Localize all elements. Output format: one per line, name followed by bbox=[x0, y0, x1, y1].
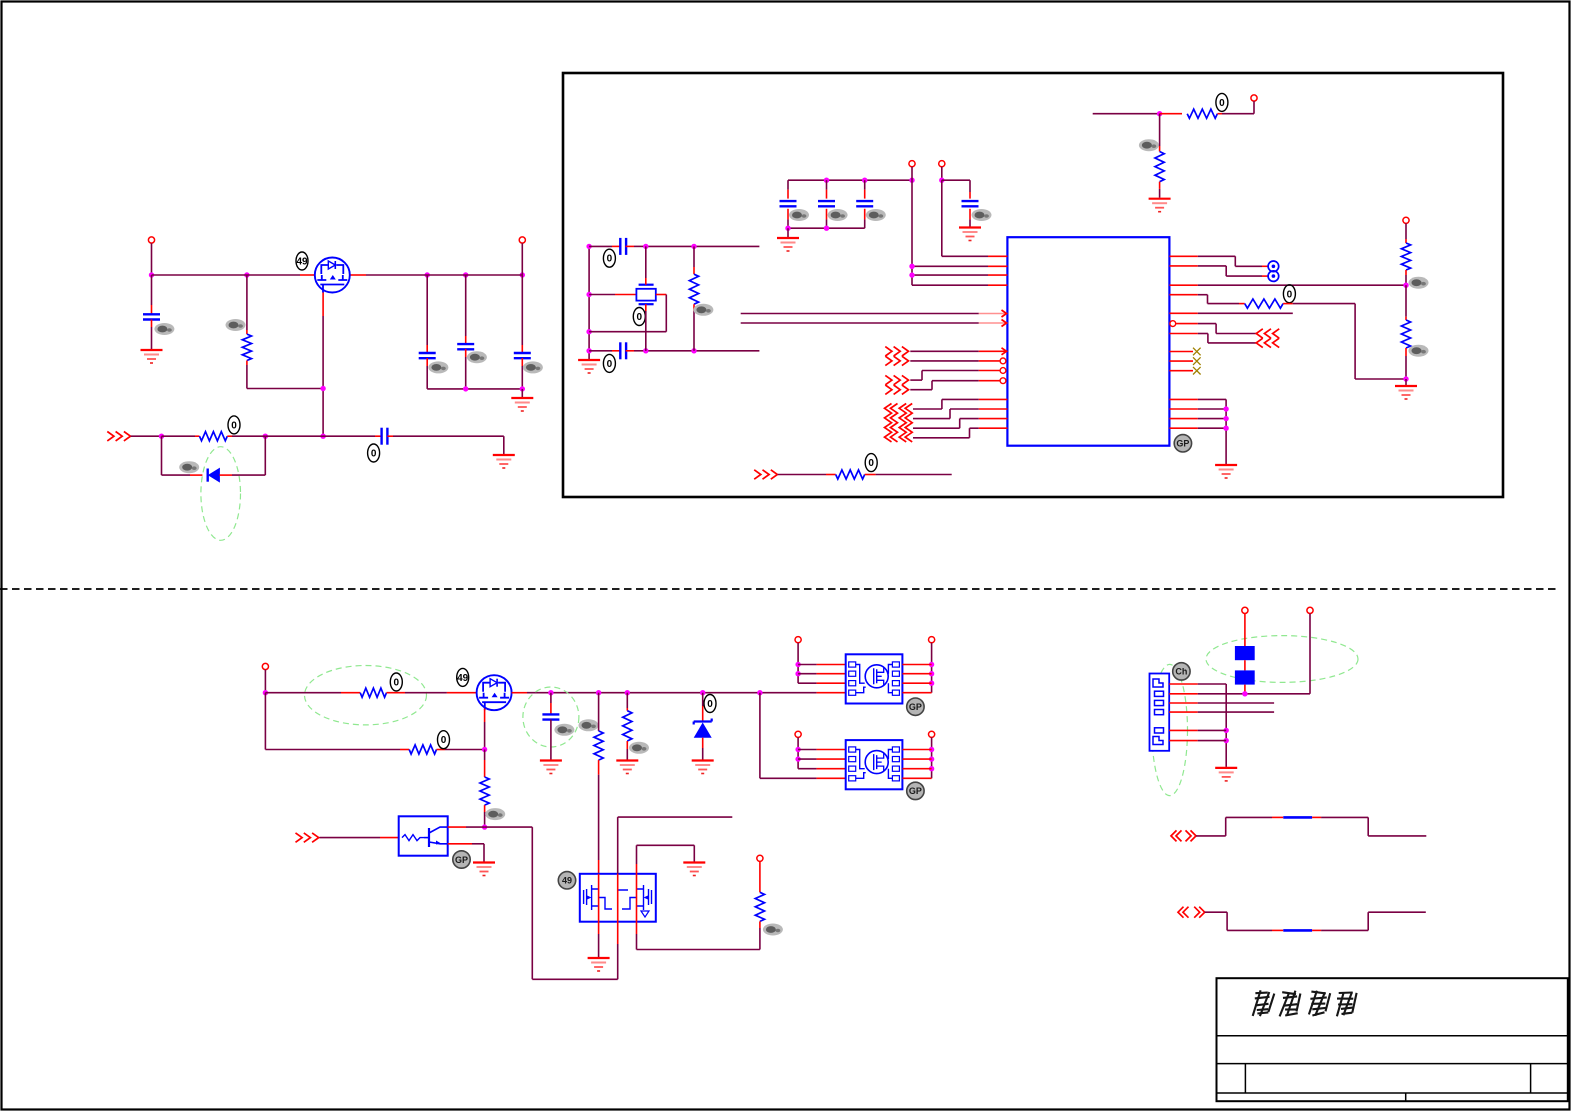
svg-text:49: 49 bbox=[457, 673, 469, 684]
no-connect pins U1 bbox=[1169, 348, 1200, 375]
value label C1 bbox=[154, 323, 174, 335]
wire U1 pin row L5 bbox=[741, 310, 1008, 317]
wire K2 right bus bbox=[929, 737, 934, 778]
ground below R14 bbox=[616, 761, 638, 774]
IC U1 bbox=[1007, 237, 1169, 446]
power terminal P6 bbox=[1251, 95, 1257, 114]
label GP U1 bbox=[1174, 435, 1191, 452]
power terminal P11 bbox=[795, 731, 801, 737]
wire K1 in1 bbox=[798, 664, 846, 666]
off-page input arrows IN2 bbox=[754, 470, 777, 479]
wire P1 to input rail bbox=[151, 243, 153, 275]
designator oval Q1 bbox=[296, 252, 308, 270]
designator oval C5 bbox=[368, 444, 380, 462]
wire K1 out4 bbox=[902, 692, 931, 694]
label Ch J1 bbox=[1173, 663, 1190, 680]
power terminal P13 bbox=[1242, 607, 1248, 613]
designator oval R11 bbox=[438, 731, 450, 749]
node IN1 bbox=[159, 434, 268, 439]
value label R3 bbox=[693, 304, 713, 316]
capacitor C7 bbox=[589, 342, 646, 359]
selection ellipse around D1 bbox=[201, 447, 241, 541]
designator oval R10 bbox=[390, 673, 402, 691]
value label R12 bbox=[485, 808, 505, 820]
svg-text:0: 0 bbox=[441, 735, 447, 746]
ground decap rail bbox=[777, 228, 799, 251]
label GP U2 bbox=[453, 851, 470, 868]
designator oval D2 bbox=[704, 695, 716, 713]
wire P3 down bbox=[911, 167, 913, 180]
off-page port A bbox=[1171, 830, 1196, 841]
ground osc rail bbox=[578, 360, 600, 373]
designator oval R6 bbox=[1283, 285, 1295, 303]
resistor R1 bbox=[242, 275, 251, 389]
wire input rail left bbox=[152, 274, 315, 276]
capacitor C1 bbox=[143, 275, 160, 349]
optocoupler U2 bbox=[399, 816, 448, 855]
power terminal P3 bbox=[909, 161, 915, 167]
off-page port B bbox=[1178, 907, 1205, 918]
wire K2 out2 bbox=[902, 758, 931, 760]
label GP K1 bbox=[907, 698, 924, 715]
resistor R11 bbox=[400, 745, 485, 754]
node divider bottom bbox=[1403, 376, 1408, 381]
designator oval R9 bbox=[865, 454, 877, 472]
resistor R15 bbox=[755, 861, 764, 949]
wire osc top out bbox=[646, 245, 760, 247]
capacitor C11 bbox=[942, 180, 979, 226]
value label R13 bbox=[579, 719, 599, 731]
capacitor C3 bbox=[457, 275, 474, 389]
value label C2 bbox=[428, 361, 448, 373]
svg-text:0: 0 bbox=[231, 420, 237, 431]
wire C5 to ground bbox=[387, 436, 503, 454]
wire Q2 to loads bbox=[512, 692, 846, 694]
wire D1 loop left bbox=[162, 436, 203, 475]
wire K1 left bus bbox=[795, 643, 800, 683]
value label R5 bbox=[1139, 139, 1159, 151]
wire U1 pin row R5 bbox=[1169, 312, 1292, 314]
wire net to R4 bbox=[1093, 111, 1163, 116]
wire crystal bottom pin bbox=[645, 304, 647, 351]
power terminal P1 bbox=[148, 237, 154, 243]
wire net A right bbox=[1312, 817, 1426, 836]
resistor R14 bbox=[623, 693, 632, 760]
designator oval Y1 bbox=[633, 308, 645, 326]
transistor Q2 PMOS bbox=[477, 675, 512, 710]
svg-text:49: 49 bbox=[296, 257, 308, 268]
value label C9 bbox=[828, 209, 848, 221]
wire U1 pin row R6 bbox=[1170, 321, 1256, 334]
wire U2 emitter bbox=[448, 844, 484, 862]
ground below C11 bbox=[959, 228, 981, 241]
wire U3 source1 gnd bbox=[588, 922, 610, 971]
power terminal P12 bbox=[929, 731, 935, 737]
svg-text:Ch: Ch bbox=[1175, 667, 1187, 677]
wire U1 pin row R3 bbox=[1169, 284, 1406, 286]
selection ellipse fuses bbox=[1206, 636, 1358, 683]
wire crystal left bbox=[589, 294, 636, 296]
capacitor C4 bbox=[514, 275, 531, 389]
power terminal P2 bbox=[519, 237, 525, 243]
wire U3 drain2 top bbox=[637, 845, 760, 949]
relay K2 bbox=[846, 740, 903, 789]
transistor Q1 PMOS bbox=[315, 258, 350, 293]
wire K1 out3 bbox=[902, 682, 931, 684]
ground below C12 bbox=[540, 761, 562, 774]
wire U1 pin row R11 bbox=[1169, 399, 1226, 464]
node J1 gnd bus bbox=[1224, 728, 1229, 744]
wire vcc rail bbox=[788, 179, 912, 181]
svg-text:0: 0 bbox=[371, 449, 377, 460]
ground J1 bbox=[1215, 768, 1237, 781]
ferrite bead FB2 bbox=[1283, 929, 1312, 932]
power terminal P10 bbox=[929, 637, 935, 643]
wire U3 source1 red bbox=[598, 874, 600, 922]
wire gate node to U3 bbox=[485, 827, 618, 979]
power terminal P4 bbox=[939, 161, 945, 167]
value label R15 bbox=[763, 924, 783, 936]
wire crystal top pin bbox=[645, 246, 647, 284]
designator oval R4 bbox=[1216, 93, 1228, 111]
wire P7 down bbox=[263, 670, 268, 696]
wire output caps rail bbox=[427, 388, 522, 390]
ground divider bbox=[1395, 379, 1417, 399]
node output caps rail bbox=[463, 386, 525, 391]
svg-text:0: 0 bbox=[394, 678, 400, 689]
capacitor C5 bbox=[382, 428, 388, 445]
capacitor C9 bbox=[818, 180, 835, 228]
wire P2 down bbox=[521, 243, 523, 275]
off-page arrows G2 bbox=[885, 375, 908, 394]
logo Wistron calligraphy bbox=[1253, 990, 1357, 1016]
resistor R10 bbox=[265, 688, 476, 697]
wire J1 pin1 bbox=[1169, 684, 1226, 767]
wire U1 pin row R13 bbox=[1169, 416, 1228, 421]
test point TP2 bbox=[1268, 271, 1279, 282]
ground below caps rail bbox=[511, 389, 533, 411]
node vcc rail bbox=[824, 178, 915, 183]
wire gate feedback bbox=[265, 693, 400, 750]
wire IN1 to R2 bbox=[131, 435, 162, 437]
capacitor C2 bbox=[419, 275, 436, 389]
wire U1 pin row L7 bbox=[910, 348, 1007, 355]
relay K1 bbox=[846, 654, 903, 703]
wire decap gnd rail bbox=[788, 227, 865, 229]
wire K1 out1 bbox=[902, 664, 931, 666]
value label R7 bbox=[1409, 277, 1429, 289]
connector J1 bbox=[1150, 674, 1170, 751]
wire J1 pin4 bbox=[1169, 711, 1274, 713]
node input rail bbox=[149, 272, 525, 277]
resistor R2 bbox=[162, 432, 266, 441]
wire U2 collector bbox=[448, 826, 485, 828]
wire U1 pin row L9 bbox=[922, 368, 1006, 381]
wire P4 down bbox=[939, 167, 944, 183]
off-page arrows right bbox=[1256, 329, 1279, 348]
wire J1 pin6 bbox=[1169, 740, 1226, 742]
node decap gnd rail bbox=[785, 226, 829, 231]
wire node to C5 bbox=[265, 435, 381, 437]
wire U1 pin row L1 bbox=[942, 180, 1008, 256]
bus entry chevrons left bbox=[885, 404, 913, 442]
wire U1 pin row R12 bbox=[1169, 406, 1228, 411]
ground right of C5 bbox=[493, 455, 515, 468]
selection ellipse connector bbox=[1152, 664, 1188, 795]
wire U1 pin row L4 bbox=[912, 284, 1007, 286]
wire R1 bottom rail bbox=[247, 388, 323, 390]
wire U1 pin row R4 bbox=[1169, 295, 1244, 304]
wire load to K2 bbox=[760, 693, 846, 779]
designator oval C6 bbox=[603, 249, 615, 267]
power terminal P14 bbox=[1307, 607, 1313, 613]
svg-text:GP: GP bbox=[1176, 439, 1189, 449]
schematic block frame bbox=[563, 73, 1503, 497]
wire K2 in2 bbox=[798, 758, 846, 760]
ferrite bead FB1 bbox=[1283, 816, 1312, 819]
wire K1 out2 bbox=[902, 673, 931, 675]
wire Q2 gate bbox=[482, 709, 487, 753]
value label R14 bbox=[629, 742, 649, 754]
resistor R13 bbox=[594, 693, 603, 874]
node osc bottom bbox=[643, 348, 697, 353]
ground below D2 bbox=[692, 761, 714, 774]
zener diode D2 bbox=[694, 693, 712, 760]
wire U1 pin row L2 bbox=[909, 180, 1007, 285]
value label D1 bbox=[179, 461, 199, 473]
capacitor C8 bbox=[780, 180, 797, 228]
wire U3 gate2 top bbox=[618, 817, 733, 979]
wire net B bbox=[1205, 912, 1284, 930]
value label C3 bbox=[467, 351, 487, 363]
value label C11 bbox=[972, 209, 992, 221]
dual MOSFET U3 bbox=[580, 874, 656, 922]
designator oval R2 bbox=[228, 416, 240, 434]
node divider mid bbox=[1403, 283, 1408, 288]
designator oval Q2 bbox=[457, 668, 469, 686]
capacitor C10 bbox=[856, 180, 873, 228]
wire Q1 to output rail bbox=[350, 274, 522, 276]
fuse F1 bbox=[1235, 614, 1255, 661]
svg-text:0: 0 bbox=[1287, 289, 1293, 300]
resistor R5 bbox=[1155, 114, 1164, 198]
svg-text:0: 0 bbox=[1219, 98, 1225, 109]
value label C12 bbox=[554, 724, 574, 736]
crystal Y1 bbox=[636, 285, 655, 305]
svg-text:0: 0 bbox=[607, 359, 613, 370]
svg-text:GP: GP bbox=[909, 786, 922, 796]
wire net B right bbox=[1312, 912, 1426, 930]
svg-text:0: 0 bbox=[637, 312, 643, 323]
wire J1 pin3 bbox=[1169, 702, 1274, 704]
wire U1 pin row L8 bbox=[910, 358, 1006, 364]
wire osc bottom out bbox=[646, 350, 760, 352]
resistor R3 bbox=[689, 246, 698, 350]
resistor R6 bbox=[1245, 299, 1293, 308]
capacitor C12 bbox=[542, 693, 559, 760]
power terminal P8 bbox=[757, 855, 763, 861]
wire D1 loop right bbox=[219, 436, 265, 475]
wire U1 pin row R1 bbox=[1169, 256, 1267, 266]
wire Q1 gate down bbox=[322, 293, 324, 437]
label GP K2 bbox=[907, 782, 924, 799]
value label C8 bbox=[789, 209, 809, 221]
wire U1 pin row L12 bbox=[913, 419, 1007, 429]
power terminal P5 bbox=[1403, 217, 1409, 223]
value label C10 bbox=[866, 209, 886, 221]
node load rail bbox=[548, 690, 762, 695]
wire IN3 to U2 bbox=[320, 837, 399, 839]
label 49 U3 bbox=[558, 872, 575, 889]
resistor R8 bbox=[1401, 285, 1410, 379]
wire J1 pin5 bbox=[1169, 729, 1226, 731]
power terminal P9 bbox=[795, 637, 801, 643]
wire K1 right bus bbox=[929, 643, 934, 693]
wire U1 pin row L6 bbox=[741, 320, 1008, 327]
node osc top bbox=[643, 244, 697, 249]
fuse F2 bbox=[1235, 660, 1255, 694]
value label R8 bbox=[1409, 345, 1429, 357]
value label R1 bbox=[226, 319, 246, 331]
ground U1 pins bbox=[1215, 465, 1237, 478]
wire U1 pin row R7 bbox=[1169, 334, 1256, 343]
wire R6 to divider bbox=[1293, 304, 1406, 379]
wire K2 out4 bbox=[902, 777, 931, 779]
wire net A bbox=[1196, 817, 1283, 836]
resistor R9 bbox=[778, 470, 952, 479]
svg-text:49: 49 bbox=[562, 876, 572, 886]
svg-text:GP: GP bbox=[909, 702, 922, 712]
svg-text:GP: GP bbox=[455, 855, 468, 865]
section divider dashed line bbox=[0, 588, 1560, 590]
test point TP1 bbox=[1268, 261, 1279, 272]
designator oval C7 bbox=[603, 354, 615, 372]
ground below U2 bbox=[473, 863, 495, 876]
ground below R5 bbox=[1149, 199, 1171, 212]
capacitor C6 bbox=[589, 238, 646, 255]
wire K2 out1 bbox=[902, 749, 931, 751]
wire G2b to U1 bbox=[910, 378, 1006, 390]
svg-text:0: 0 bbox=[707, 699, 713, 710]
power terminal P7 bbox=[262, 663, 268, 669]
wire crystal right loop bbox=[589, 295, 666, 332]
selection ellipse around C12 bbox=[523, 687, 579, 747]
wire K1 in2 bbox=[798, 673, 846, 675]
wire K1 in3 bbox=[798, 682, 846, 684]
diode D1 bbox=[208, 469, 220, 482]
off-page arrows G1 bbox=[885, 347, 908, 366]
ground near U3 bbox=[683, 863, 705, 876]
svg-text:0: 0 bbox=[607, 254, 613, 265]
wire K2 left bus bbox=[795, 737, 800, 768]
node osc left rail bbox=[586, 244, 591, 354]
off-page input arrows IN1 bbox=[107, 432, 130, 441]
wire U1 pin row L3 bbox=[909, 272, 1007, 277]
resistor R4 bbox=[1160, 109, 1254, 118]
title block bbox=[1217, 978, 1568, 1101]
resistor R12 bbox=[480, 750, 489, 830]
wire U1 pin row R14 bbox=[1169, 426, 1228, 431]
wire J1 pin2 bbox=[1169, 614, 1310, 697]
wire K2 in1 bbox=[798, 749, 846, 751]
wire U1 pin row L13 bbox=[913, 428, 1007, 438]
wire U1 pin row R2 bbox=[1169, 266, 1267, 276]
node Q1 gate rail bbox=[320, 386, 325, 439]
value label C4 bbox=[523, 361, 543, 373]
wire U1 pin row L10 bbox=[913, 399, 1007, 409]
wire G2a to U1 bbox=[910, 379, 922, 381]
wire osc left rail bbox=[588, 246, 590, 359]
off-page input arrows IN3 bbox=[296, 833, 319, 842]
ground below C1 bbox=[141, 350, 163, 363]
wire K2 in3 bbox=[798, 768, 846, 770]
resistor R7 bbox=[1401, 223, 1410, 285]
wire K2 out3 bbox=[902, 768, 931, 770]
wire U1 pin row L11 bbox=[913, 409, 1007, 419]
svg-text:0: 0 bbox=[868, 458, 874, 469]
selection ellipse around R10 bbox=[305, 666, 427, 725]
